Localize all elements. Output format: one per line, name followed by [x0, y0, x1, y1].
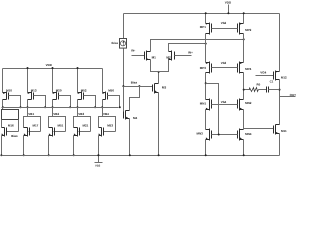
transistor MP3 gate bar [211, 64, 213, 73]
wire: bias box column 4 [74, 117, 91, 132]
junction ground symbol [97, 154, 99, 156]
transistor M52 stubs [78, 92, 82, 94]
transistor MP3 channel [209, 62, 211, 74]
wire: Bias vertical to M4 gate [123, 87, 125, 115]
junction on VDD bus col2 [27, 67, 29, 69]
transistor M17 gate bar [29, 128, 31, 136]
wire: M4 drain riser to Bias [130, 87, 140, 111]
transistor M12 channel [275, 71, 277, 81]
transistor MN3 stubs [206, 129, 210, 131]
transistor M10 channel [6, 92, 8, 100]
svg-text:VDD: VDD [46, 63, 53, 67]
wire: capacitor to output node [269, 89, 280, 91]
wire: M12 source to VDD bus [279, 14, 281, 72]
transistor M51 channel [52, 128, 54, 137]
transistor MP2 arrow [240, 23, 242, 25]
wire: MP1/MP2 gate wire [212, 28, 238, 30]
svg-text:Bias: Bias [131, 81, 138, 85]
transistor MN4 arrow [240, 138, 242, 140]
junction M13 drain on rail [27, 106, 29, 108]
transistor MP4 arrow [240, 62, 242, 64]
transistor M16 gate bar [6, 128, 8, 136]
transistor M51 stubs [49, 127, 53, 129]
wire: M53 gate wire [104, 131, 116, 133]
svg-text:Vb3: Vb3 [221, 61, 227, 65]
transistor M53 arrow [99, 134, 101, 136]
transistor M11 arrow [276, 132, 278, 134]
transistor M2 arrow [168, 58, 170, 60]
wire: IN- to M1 gate [132, 55, 145, 57]
svg-text:IN+: IN+ [188, 50, 193, 54]
bias rail (left block) [2, 107, 119, 109]
wire: Ibias down to Bias node [123, 49, 125, 87]
transistor MP2 stubs [240, 23, 244, 25]
transistor M1 stubs [147, 51, 151, 53]
junction M50 drain on rail [101, 106, 103, 108]
svg-text:M1: M1 [152, 55, 157, 59]
wire: M17 gate wire [29, 131, 41, 133]
junction M13 gate on rail [44, 106, 46, 108]
transistor MN4 channel [239, 129, 241, 141]
transistor M20 gate bar [58, 93, 60, 100]
wire: M50 gate hook [108, 96, 120, 108]
transistor MN2 arrow [240, 108, 242, 110]
transistor M17 channel [27, 128, 29, 137]
transistor MP2 gate bar [237, 24, 239, 33]
svg-text:M3: M3 [162, 86, 167, 90]
wire: MN1/MN2 gate wire [212, 104, 238, 106]
svg-text:MN4: MN4 [245, 132, 252, 136]
transistor MN1 stubs [206, 99, 210, 101]
wire: M2 gate to IN+ [175, 55, 192, 57]
transistor M16 stubs [2, 127, 5, 129]
transistor MP4 stubs [240, 62, 244, 64]
wire: bias box column 5 [99, 117, 116, 132]
wire: M3 drain to tail node [158, 72, 160, 84]
VDD bus (top) [124, 13, 280, 15]
wire: M3 source to ground [158, 93, 160, 156]
wire: M51 source to ground bus [48, 136, 50, 156]
svg-text:M50: M50 [108, 88, 114, 92]
transistor M50 gate bar [107, 93, 109, 100]
junction M16 source on ground bus [0, 154, 2, 156]
VDD bus (left bias block) [3, 68, 103, 70]
svg-text:VB2: VB2 [53, 112, 59, 116]
wire: VG4 stub to M12 gate [256, 75, 274, 77]
wire: M52 gate hook [84, 96, 96, 108]
transistor M2 channel [171, 51, 173, 61]
svg-text:M53: M53 [107, 124, 113, 128]
transistor MN1 arrow [206, 108, 208, 110]
svg-text:VG4: VG4 [260, 71, 266, 75]
junction Ibias/Bias [122, 85, 124, 87]
wire: Bias net [124, 86, 153, 88]
wire: bias box column 1 (closed) [2, 110, 19, 120]
junction M20 drain on rail [52, 106, 54, 108]
transistor MP4 channel [239, 62, 241, 74]
transistor MN2 channel [239, 99, 241, 111]
wire: MN3/MN4 gate wire [212, 134, 238, 136]
wire: bias box column 3 [49, 117, 66, 132]
junction M17 source on ground bus [23, 154, 25, 156]
junction M10 drain on rail [2, 106, 4, 108]
svg-text:OUT: OUT [290, 93, 297, 97]
svg-text:MP2: MP2 [245, 28, 252, 32]
junction M20 gate on rail [69, 106, 71, 108]
wire: M17 source to ground bus [23, 136, 25, 156]
transistor M1 channel [146, 51, 148, 61]
transistor MN3 arrow [206, 138, 208, 140]
transistor MN2 gate bar [237, 100, 239, 109]
transistor M50 stubs [103, 92, 106, 94]
transistor M11 stubs [276, 124, 280, 126]
svg-text:M11: M11 [281, 129, 287, 133]
junction tap on bottom gate wire [218, 134, 220, 136]
wire: VDD bus drop to M50 source [102, 69, 104, 93]
transistor M10 stubs [3, 92, 7, 94]
wire: VDD stub [228, 5, 230, 14]
wire: output node vertical [279, 80, 281, 125]
transistor M4 stubs [126, 110, 130, 112]
transistor M21 gate bar [79, 128, 81, 136]
capacitor C1 [266, 87, 268, 93]
svg-text:MP4: MP4 [245, 67, 252, 71]
transistor M11 channel [275, 125, 277, 135]
wire: right cascode verticals [243, 14, 245, 24]
transistor M17 stubs [24, 127, 28, 129]
transistor MP4 gate bar [237, 64, 239, 73]
transistor M3 channel [154, 84, 156, 94]
wire: column 1 box to NMOS gate [18, 120, 20, 132]
wire: M4 source to ground [129, 119, 131, 156]
transistor M20 stubs [53, 92, 57, 94]
transistor M52 gate bar [83, 93, 85, 100]
junction M4 source on ground bus [129, 154, 131, 156]
junction on VDD bus col4 [77, 67, 79, 69]
wire: M53 source to ground bus [98, 136, 100, 156]
transistor M1 arrow [146, 58, 148, 60]
transistor M53 stubs [99, 127, 102, 129]
transistor M13 gate bar [33, 93, 35, 100]
transistor M1 gate bar [144, 52, 146, 60]
wire: MP3/MP4 gate wire [212, 67, 238, 69]
transistor M13 channel [31, 92, 33, 100]
transistor MP2 channel [239, 23, 241, 35]
transistor MP1 channel [209, 23, 211, 35]
svg-text:MP1: MP1 [200, 25, 207, 29]
wire: M10 gate hook [9, 96, 21, 108]
wire: M50 drain down to box [102, 100, 104, 117]
svg-text:Vb2: Vb2 [221, 21, 227, 25]
transistor MN1 channel [209, 99, 211, 111]
svg-text:MP3: MP3 [200, 66, 207, 70]
wire: column 1 box to NMOS drain [1, 120, 3, 128]
transistor M3 arrow [155, 91, 157, 93]
transistor M10 gate bar [8, 93, 10, 100]
transistor MP3 arrow [206, 62, 208, 64]
transistor M2 stubs [169, 51, 172, 53]
junction tail node [158, 71, 160, 73]
svg-text:VB1: VB1 [28, 112, 34, 116]
junction wire B on left cascode [205, 43, 207, 45]
transistor MN2 stubs [240, 99, 244, 101]
transistor M50 arrow [102, 92, 104, 94]
transistor M4 gate bar [123, 112, 125, 119]
junction M53 source on ground bus [97, 154, 99, 156]
transistor M12 stubs [276, 71, 280, 73]
svg-text:VDD: VDD [225, 0, 232, 4]
transistor M2 gate bar [174, 52, 176, 60]
wire: M16 source to ground bus [1, 136, 3, 156]
junction RC on output node [279, 89, 281, 91]
wire: bias box column 2 [24, 117, 41, 132]
svg-text:M16: M16 [8, 124, 14, 128]
transistor MN4 gate bar [237, 131, 239, 139]
transistor MP3 stubs [206, 62, 210, 64]
wire: M13 drain down to box [27, 100, 29, 117]
ground bus (full width) [2, 155, 280, 157]
wire: M1 drain fold wire A [151, 40, 244, 52]
transistor M53 gate bar [103, 128, 105, 136]
wire: VDD bus drop to M20 source [52, 69, 54, 93]
transistor M4 channel [125, 111, 127, 120]
svg-text:MN3: MN3 [197, 131, 204, 135]
transistor M21 stubs [74, 127, 78, 129]
junction M52 gate on rail [94, 106, 96, 108]
transistor M13 arrow [28, 92, 30, 94]
wire: M21 source to ground bus [73, 136, 75, 156]
transistor M51 arrow [49, 134, 51, 136]
wire: M11 source to ground bus [279, 134, 281, 156]
wire: mirror tap to bottom gate wire [206, 84, 219, 135]
transistor M16 channel [4, 128, 6, 137]
transistor M3 gate bar [152, 85, 154, 92]
wire: diff pair tail bus [151, 60, 169, 72]
current source Ibias symbol [120, 39, 127, 49]
junction left cascode mirror tap [205, 82, 207, 84]
svg-text:MN1: MN1 [200, 101, 207, 105]
junction wire A on right cascode [243, 38, 245, 40]
svg-text:Bias: Bias [11, 134, 18, 138]
junction right cascode on VDD bus [243, 12, 245, 14]
transistor MN3 gate bar [211, 131, 213, 139]
junction resistor on right cascode [243, 89, 245, 91]
wire: M16 gate wire [7, 131, 19, 133]
wire: M52 drain down to box [77, 100, 79, 117]
svg-text:C1: C1 [270, 80, 274, 84]
transistor MN3 channel [209, 129, 211, 141]
junction left cascode on ground bus [205, 154, 207, 156]
svg-text:M21: M21 [83, 124, 89, 128]
junction M51 source on ground bus [48, 154, 50, 156]
junction M52 drain on rail [77, 106, 79, 108]
svg-text:VSS: VSS [95, 165, 100, 168]
junction right cascode on ground bus [243, 154, 245, 156]
svg-text:M12: M12 [281, 75, 287, 79]
wire: M2 drain fold wire B [169, 44, 206, 52]
junction VDD stub [227, 12, 229, 14]
transistor M51 gate bar [54, 128, 56, 136]
transistor M4 arrow [126, 117, 128, 119]
wire: cascode output to M11 gate [244, 128, 274, 130]
transistor M50 channel [105, 92, 107, 100]
svg-text:VB3: VB3 [78, 112, 84, 116]
svg-text:R0: R0 [257, 82, 261, 86]
transistor M10 arrow [3, 92, 5, 94]
transistor M21 arrow [74, 134, 76, 136]
transistor M53 channel [101, 128, 103, 137]
wire: resistor to capacitor [259, 89, 267, 91]
transistor M3 stubs [155, 83, 159, 85]
junction M10 gate on rail [20, 106, 22, 108]
transistor M20 channel [56, 92, 58, 100]
transistor MP1 gate bar [211, 24, 213, 33]
svg-text:Ibias: Ibias [112, 41, 119, 45]
svg-text:M4: M4 [133, 116, 137, 120]
transistor M52 arrow [78, 92, 80, 94]
svg-text:M10: M10 [6, 88, 12, 92]
junction M3 source on ground bus [158, 154, 160, 156]
transistor M21 channel [77, 128, 79, 137]
transistor M20 arrow [53, 92, 55, 94]
wire: left cascode verticals [205, 14, 207, 24]
transistor M13 stubs [28, 92, 32, 94]
wire: M20 gate hook [59, 96, 71, 108]
wire: Ibias from VDD bus [123, 14, 125, 39]
svg-text:Vb4: Vb4 [221, 100, 227, 104]
junction M4 drain on Bias wire [138, 85, 140, 87]
transistor MP1 arrow [206, 23, 208, 25]
svg-text:M51: M51 [58, 124, 64, 128]
transistor MN1 gate bar [211, 100, 213, 109]
wire: M21 gate wire [79, 131, 91, 133]
wire: M51 gate wire [54, 131, 66, 133]
wire: VDD bus drop to M10 source [2, 69, 4, 93]
resistor R0 [244, 88, 259, 92]
transistor M52 channel [81, 92, 83, 100]
transistor M11 gate bar [273, 126, 275, 134]
wire: M13 gate hook [34, 96, 46, 108]
svg-text:M17: M17 [33, 124, 39, 128]
wire: M10 drain down to box [2, 100, 4, 110]
wire: OUT [280, 96, 296, 98]
transistor M17 arrow [24, 134, 26, 136]
junction M21 source on ground bus [73, 154, 75, 156]
wire: M20 drain down to box [52, 100, 54, 117]
wire: VDD bus drop to M52 source [77, 69, 79, 93]
transistor M16 arrow [2, 134, 4, 136]
ground symbol [98, 156, 100, 163]
svg-text:VB4: VB4 [103, 112, 109, 116]
junction left cascode on VDD bus [205, 12, 207, 14]
transistor M12 gate bar [273, 72, 275, 80]
transistor M12 arrow [276, 71, 278, 73]
transistor MN4 stubs [240, 129, 244, 131]
junction M50 gate on rail [119, 106, 121, 108]
junction on VDD bus col3 [52, 67, 54, 69]
transistor MP1 stubs [206, 23, 210, 25]
svg-text:MN2: MN2 [245, 101, 252, 105]
svg-text:IN-: IN- [131, 48, 135, 52]
wire: VDD bus drop to M13 source [27, 69, 29, 93]
